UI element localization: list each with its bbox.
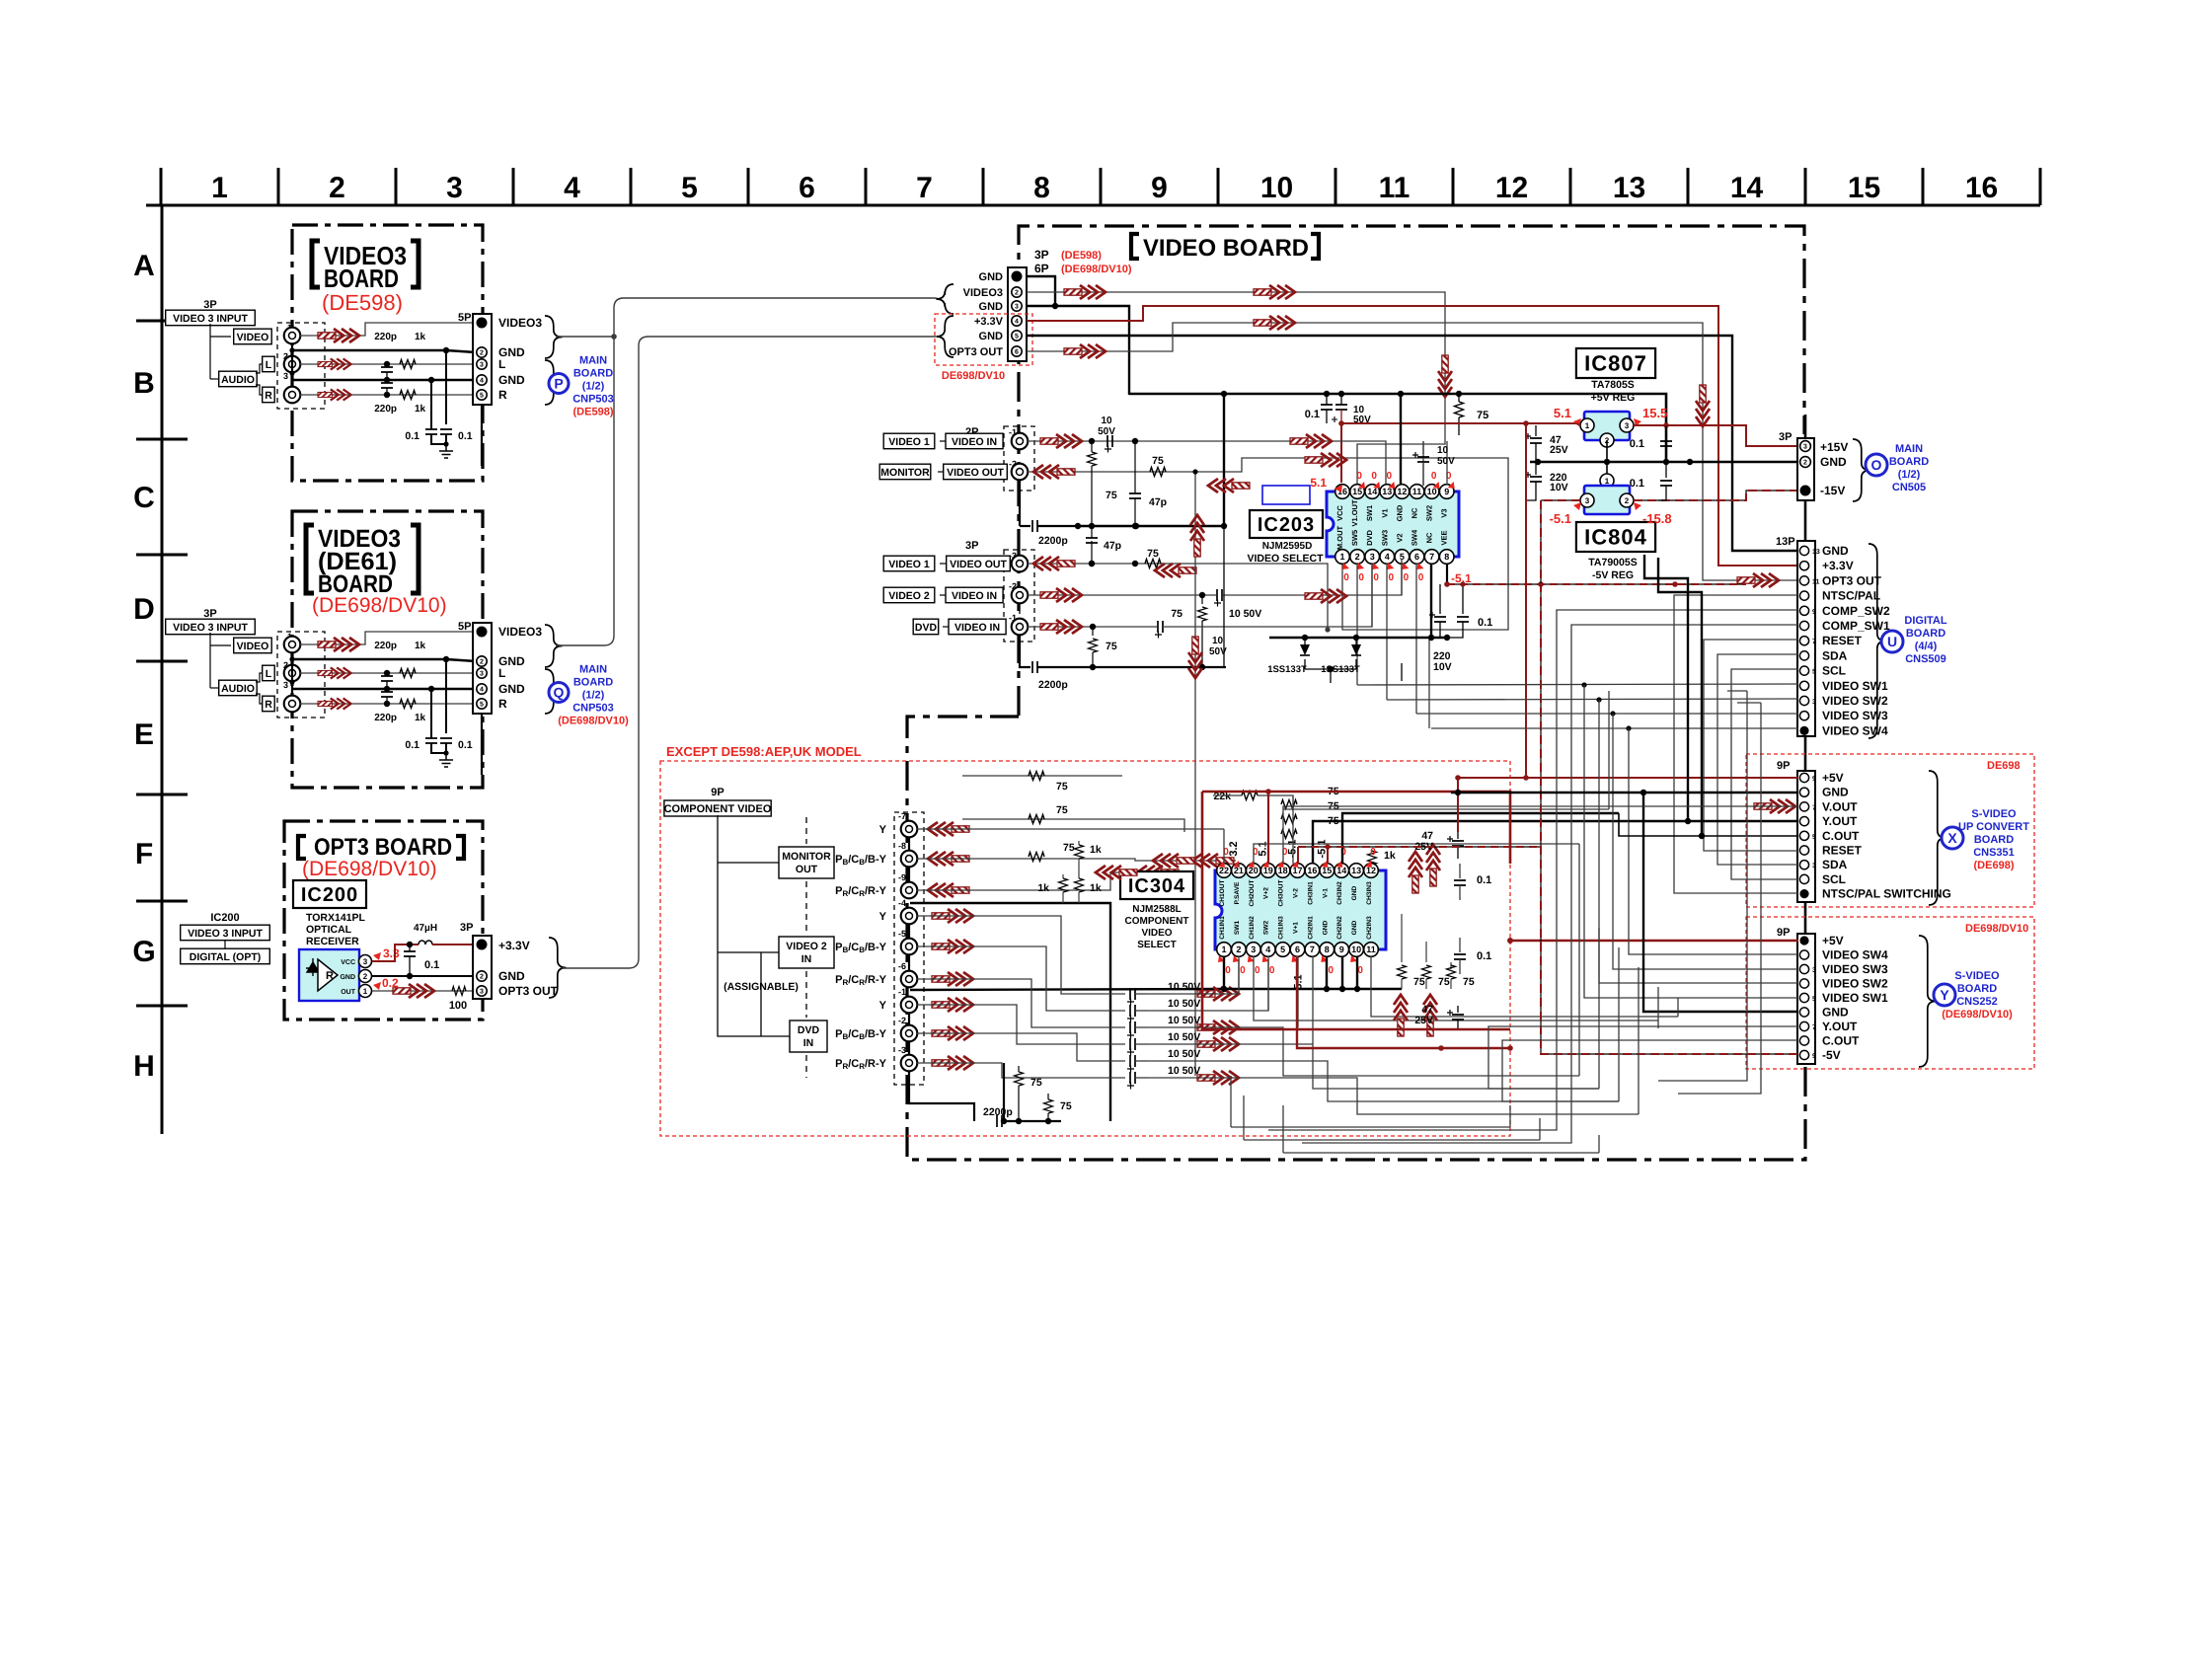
svg-text:-6: -6 bbox=[898, 961, 906, 971]
svg-text:1SS133T: 1SS133T bbox=[1267, 664, 1307, 675]
svg-text:3: 3 bbox=[1625, 421, 1630, 430]
wire GND opt3 bbox=[372, 975, 476, 977]
svg-text:(1/2): (1/2) bbox=[1898, 469, 1921, 481]
capacitor 220p R B2 bbox=[386, 689, 388, 692]
svg-text:CH3IN3: CH3IN3 bbox=[1366, 881, 1373, 905]
svg-text:GND: GND bbox=[979, 301, 1004, 313]
svg-text:VCC: VCC bbox=[1335, 505, 1344, 521]
svg-text:DVD: DVD bbox=[915, 622, 938, 634]
svg-text:8: 8 bbox=[1325, 945, 1330, 954]
svg-text:10 50V: 10 50V bbox=[1168, 998, 1200, 1010]
svg-text:VIDEO: VIDEO bbox=[1141, 928, 1172, 939]
svg-text:13P: 13P bbox=[1776, 536, 1795, 548]
svg-text:SELECT: SELECT bbox=[1137, 940, 1176, 950]
svg-text:+15V: +15V bbox=[1820, 440, 1848, 454]
IC304 bottom thick gnd bus bbox=[1224, 956, 1402, 989]
connector top 6P strip bbox=[1008, 267, 1027, 361]
svg-text:75: 75 bbox=[1063, 842, 1075, 854]
svg-text:9: 9 bbox=[1444, 487, 1449, 496]
svg-text:GND: GND bbox=[498, 373, 525, 387]
cap 0.1 IC804 right bbox=[1665, 462, 1667, 478]
svg-text:RECEIVER: RECEIVER bbox=[306, 936, 359, 947]
svg-text:-15.8: -15.8 bbox=[1642, 511, 1672, 526]
resistor 1k L B2 bbox=[400, 669, 416, 678]
svg-text:75: 75 bbox=[1056, 781, 1068, 793]
svg-text:IC304: IC304 bbox=[1128, 875, 1185, 897]
svg-text:VIDEO OUT: VIDEO OUT bbox=[950, 559, 1007, 570]
svg-text:TA7805S: TA7805S bbox=[1591, 379, 1635, 391]
IC304 top wires bbox=[1223, 829, 1225, 864]
svg-text:10: 10 bbox=[1101, 416, 1112, 426]
svg-text:COMP_SW1: COMP_SW1 bbox=[1822, 619, 1890, 633]
svg-text:3.3: 3.3 bbox=[383, 946, 400, 960]
svg-text:E: E bbox=[134, 718, 154, 751]
svg-text:25V: 25V bbox=[1550, 444, 1568, 456]
svg-text:IC203: IC203 bbox=[1258, 514, 1315, 536]
wires component tree bbox=[718, 815, 790, 1036]
svg-text:(4/4): (4/4) bbox=[1915, 641, 1938, 652]
svg-text:75: 75 bbox=[1056, 804, 1068, 816]
svg-text:1: 1 bbox=[1585, 421, 1590, 430]
svg-text:VIDEO: VIDEO bbox=[237, 332, 269, 343]
svg-text:SDA: SDA bbox=[1822, 858, 1848, 871]
svg-text:11: 11 bbox=[1812, 578, 1820, 585]
brace B1 bbox=[545, 316, 563, 358]
svg-text:6P: 6P bbox=[1034, 262, 1049, 275]
svg-text:COMPONENT VIDEO: COMPONENT VIDEO bbox=[664, 803, 772, 815]
svg-text:VIDEO3: VIDEO3 bbox=[498, 625, 542, 639]
red -5.1 dashed from pin8 bbox=[1447, 583, 1746, 585]
svg-text:TA79005S: TA79005S bbox=[1588, 557, 1637, 568]
ground B1 bbox=[445, 444, 447, 451]
svg-text:AUDIO: AUDIO bbox=[221, 683, 255, 695]
svg-text:GND: GND bbox=[1395, 504, 1404, 521]
svg-text:10 50V: 10 50V bbox=[1168, 1048, 1200, 1060]
svg-text:7: 7 bbox=[1429, 552, 1434, 562]
svg-text:COMP_SW2: COMP_SW2 bbox=[1822, 604, 1890, 618]
wire video1 in bbox=[1028, 441, 1386, 484]
svg-text:15.5: 15.5 bbox=[1642, 406, 1667, 420]
svg-text:BOARD: BOARD bbox=[1906, 628, 1945, 640]
svg-text:13: 13 bbox=[1613, 172, 1645, 204]
wire gnd B1 bbox=[292, 350, 476, 352]
RCA jacks B2 bbox=[277, 632, 325, 718]
svg-text:+3.3V: +3.3V bbox=[1822, 559, 1854, 572]
dashed link lines bbox=[805, 817, 807, 844]
svg-text:CH3IN2: CH3IN2 bbox=[1336, 881, 1343, 905]
svg-text:CH2OUT: CH2OUT bbox=[1249, 879, 1256, 906]
svg-text:VIDEO 2: VIDEO 2 bbox=[786, 941, 827, 952]
svg-text:0.1: 0.1 bbox=[1305, 409, 1320, 420]
capacitor 220p L B1 bbox=[384, 361, 390, 367]
svg-text:NC: NC bbox=[1425, 532, 1434, 543]
bus VIDEO SW2 bbox=[1387, 699, 1798, 700]
svg-text:SW1: SW1 bbox=[1365, 505, 1374, 521]
svg-text:-5: -5 bbox=[898, 929, 906, 939]
wire video3 long bbox=[1027, 292, 1445, 486]
svg-text:C.OUT: C.OUT bbox=[1822, 1034, 1860, 1048]
svg-text:V.OUT: V.OUT bbox=[1822, 799, 1858, 813]
svg-text:P.SAVE: P.SAVE bbox=[1234, 881, 1241, 904]
capacitor 0.1 opt3 bbox=[407, 942, 413, 947]
wire pin9 V3 bbox=[1446, 441, 1448, 485]
IC304 thick top verticals bbox=[1313, 821, 1629, 864]
svg-text:(1/2): (1/2) bbox=[582, 381, 605, 393]
svg-text:3: 3 bbox=[1370, 552, 1375, 562]
svg-text:CH3OUT: CH3OUT bbox=[1278, 879, 1285, 906]
svg-text:B: B bbox=[133, 367, 155, 400]
svg-text:3: 3 bbox=[446, 172, 463, 204]
capacitor 47p below video1 bbox=[1134, 441, 1136, 493]
svg-text:Y.OUT: Y.OUT bbox=[1822, 814, 1858, 828]
svg-text:47p: 47p bbox=[1104, 540, 1121, 552]
svg-text:75: 75 bbox=[1463, 976, 1475, 988]
svg-text:2: 2 bbox=[1355, 552, 1360, 562]
capacitor 2200p bbox=[1020, 525, 1030, 527]
IC304 pins top bbox=[1217, 864, 1232, 878]
svg-text:3: 3 bbox=[1015, 304, 1019, 311]
svg-text:CH1IN1: CH1IN1 bbox=[1219, 916, 1226, 940]
wire monitor out bbox=[1028, 458, 1508, 630]
wire OPT3 OUT long bbox=[1027, 323, 1798, 580]
component jacks dashed box bbox=[894, 812, 924, 1085]
svg-text:X: X bbox=[1947, 830, 1957, 846]
svg-text:5.1: 5.1 bbox=[1310, 476, 1327, 490]
svg-text:+3.3V: +3.3V bbox=[498, 939, 530, 952]
OPT3 BOARD box bbox=[284, 821, 483, 1020]
svg-text:CNP503: CNP503 bbox=[572, 703, 614, 715]
svg-text:GND: GND bbox=[1822, 1006, 1849, 1020]
svg-text:3: 3 bbox=[1812, 699, 1816, 706]
svg-text:DIGITAL: DIGITAL bbox=[1904, 615, 1946, 627]
resistor 75 rail bbox=[1458, 394, 1460, 402]
caps 47 25V right bbox=[1457, 832, 1459, 839]
svg-text:1k: 1k bbox=[415, 404, 426, 415]
svg-text:R: R bbox=[265, 699, 272, 711]
svg-text:50V: 50V bbox=[1098, 426, 1115, 437]
IC304 pins bottom bbox=[1217, 943, 1232, 957]
svg-text:7: 7 bbox=[1812, 1024, 1816, 1031]
svg-text:75: 75 bbox=[1438, 976, 1450, 988]
svg-text:NTSC/PAL: NTSC/PAL bbox=[1822, 589, 1880, 603]
svg-text:OPT3 OUT: OPT3 OUT bbox=[1822, 573, 1882, 587]
svg-text:IC200: IC200 bbox=[210, 912, 239, 924]
DVD IN box bbox=[790, 1020, 827, 1052]
svg-text:CH2IN1: CH2IN1 bbox=[1307, 916, 1314, 940]
svg-text:3: 3 bbox=[1251, 945, 1256, 954]
IC304 label bbox=[1120, 871, 1193, 899]
resistor 75 on v1out line bbox=[1145, 560, 1161, 568]
resistor cluster 75s bbox=[1401, 914, 1403, 962]
red feed V+2 pin19 bbox=[1267, 792, 1269, 864]
svg-text:9P: 9P bbox=[1777, 760, 1790, 772]
svg-text:75: 75 bbox=[1171, 608, 1182, 620]
svg-text:3: 3 bbox=[283, 680, 288, 690]
svg-text:4: 4 bbox=[1015, 319, 1019, 326]
red dashed box DE698 bbox=[1746, 754, 2034, 907]
svg-text:0: 0 bbox=[1370, 847, 1376, 858]
svg-text:(1/2): (1/2) bbox=[582, 690, 605, 702]
resistor 1k R B2 bbox=[400, 700, 416, 709]
wire video B1 bbox=[300, 323, 476, 336]
brace gather 3p6p A bbox=[936, 284, 953, 314]
bus VIDEO SW1 bbox=[1357, 684, 1798, 685]
red voltage 0.2 bbox=[373, 982, 381, 990]
svg-text:0.1: 0.1 bbox=[405, 739, 420, 751]
svg-text:10: 10 bbox=[1351, 945, 1361, 954]
gnd bus 2p bbox=[1019, 481, 1021, 526]
wire -5.1 left dashed bbox=[1541, 499, 1580, 501]
svg-text:5P: 5P bbox=[458, 621, 471, 633]
svg-text:GND: GND bbox=[498, 682, 525, 696]
wire -15.8 dashed bbox=[1634, 491, 1798, 500]
svg-text:MONITOR: MONITOR bbox=[880, 467, 930, 479]
svg-text:1k: 1k bbox=[1384, 850, 1396, 862]
svg-text:3: 3 bbox=[1812, 967, 1816, 974]
svg-text:11: 11 bbox=[1412, 487, 1422, 496]
svg-text:-8: -8 bbox=[898, 841, 906, 851]
wires caps to IC304 pins bbox=[1148, 959, 1239, 994]
svg-text:3: 3 bbox=[363, 957, 368, 966]
svg-text:9P: 9P bbox=[711, 787, 724, 798]
capacitor 0.1 B2 bbox=[428, 686, 434, 692]
svg-text:GND: GND bbox=[1351, 920, 1358, 935]
bus VIDEO SW4 bbox=[1431, 727, 1798, 729]
wire 5.1 to IC203 pin16 bbox=[1340, 423, 1342, 483]
svg-text:Q: Q bbox=[554, 685, 565, 701]
svg-text:RESET: RESET bbox=[1822, 634, 1863, 647]
svg-text:8: 8 bbox=[1444, 552, 1449, 562]
bus COMP_SW1 bbox=[1302, 625, 1798, 1143]
svg-text:Y: Y bbox=[879, 1000, 887, 1012]
svg-text:50V: 50V bbox=[1437, 456, 1455, 467]
svg-text:L: L bbox=[266, 359, 272, 371]
svg-text:(DE598): (DE598) bbox=[322, 290, 403, 315]
VIDEO BOARD outline bbox=[907, 226, 1805, 1160]
Y YOUT wire bbox=[1488, 1026, 1798, 1089]
svg-text:75: 75 bbox=[1477, 410, 1488, 421]
svg-text:6: 6 bbox=[1015, 349, 1019, 356]
svg-text:220p: 220p bbox=[374, 641, 397, 651]
svg-text:0.1: 0.1 bbox=[424, 959, 439, 971]
mesh extra h3 bbox=[1230, 1076, 1232, 1127]
svg-text:9: 9 bbox=[1151, 172, 1168, 204]
bus 13P NTSC/PAL bbox=[1674, 595, 1798, 893]
arrow V.OUT bbox=[1754, 799, 1795, 813]
brace O bbox=[1853, 439, 1870, 501]
svg-text:+5V REG: +5V REG bbox=[1591, 392, 1636, 404]
arrows after caps bbox=[1197, 987, 1239, 1001]
cap 0.1 IC807 right bbox=[1665, 425, 1667, 438]
svg-text:NJM2595D: NJM2595D bbox=[1262, 541, 1313, 552]
svg-text:(DE598): (DE598) bbox=[1061, 250, 1102, 262]
Y COUT wire bbox=[1502, 1040, 1798, 1101]
svg-text:SW5: SW5 bbox=[1350, 530, 1359, 546]
svg-text:9: 9 bbox=[1812, 776, 1816, 783]
capacitor 0.1 b B1 bbox=[445, 350, 447, 424]
VIDEO BOARD title bbox=[1131, 234, 1139, 259]
svg-text:DE698: DE698 bbox=[1987, 760, 2021, 772]
svg-text:75: 75 bbox=[1060, 1100, 1072, 1112]
wire 13P to X strip bbox=[1804, 736, 1807, 771]
mesh extra h5 bbox=[1283, 1152, 1599, 1154]
svg-text:0: 0 bbox=[1255, 965, 1260, 976]
svg-text:OPT3 BOARD: OPT3 BOARD bbox=[314, 834, 452, 861]
svg-text:4: 4 bbox=[1385, 552, 1390, 562]
capacitor 220p L B2 bbox=[384, 670, 390, 676]
svg-text:15: 15 bbox=[1848, 172, 1880, 204]
svg-text:4: 4 bbox=[480, 687, 484, 694]
svg-text:6: 6 bbox=[799, 172, 815, 204]
svg-text:L: L bbox=[266, 668, 272, 680]
svg-text:13: 13 bbox=[1382, 487, 1392, 496]
svg-text:10 50V: 10 50V bbox=[1229, 608, 1261, 620]
red dashed box DE698/DV10 Y bbox=[1746, 917, 2034, 1069]
svg-text:R: R bbox=[265, 390, 272, 402]
svg-text:V3: V3 bbox=[1440, 508, 1449, 517]
svg-text:5: 5 bbox=[1015, 334, 1019, 340]
arrow down video3 vert bbox=[1438, 355, 1452, 397]
svg-text:0.1: 0.1 bbox=[1630, 478, 1644, 490]
svg-text:9: 9 bbox=[1812, 1053, 1816, 1060]
photodiode bbox=[306, 962, 320, 972]
svg-text:OUT: OUT bbox=[796, 864, 818, 875]
svg-text:SW1: SW1 bbox=[1234, 921, 1241, 936]
Y GND wire bbox=[1643, 793, 1798, 1012]
red dashed V-2 V-1 bbox=[1297, 847, 1299, 864]
main gnd rail bbox=[1129, 394, 1666, 462]
wire gnd bus to rail bbox=[1027, 306, 1129, 395]
svg-text:13: 13 bbox=[1351, 866, 1361, 875]
svg-text:IC807: IC807 bbox=[1584, 351, 1647, 376]
svg-text:A: A bbox=[133, 250, 155, 282]
svg-text:0.1: 0.1 bbox=[458, 739, 473, 751]
wire mid vertical bbox=[1194, 472, 1196, 1076]
svg-text:VIDEO 3 INPUT: VIDEO 3 INPUT bbox=[173, 622, 248, 634]
svg-text:100: 100 bbox=[449, 1000, 467, 1012]
svg-text:VIDEO SW4: VIDEO SW4 bbox=[1822, 723, 1888, 737]
brace B2 bbox=[545, 625, 563, 667]
svg-text:-5.1: -5.1 bbox=[1550, 511, 1571, 526]
capacitor 10 50V rail bbox=[1340, 394, 1342, 405]
svg-text:CH1IN2: CH1IN2 bbox=[1249, 916, 1256, 940]
capacitor 47p below v1out bbox=[1089, 561, 1095, 567]
svg-text:NTSC/PAL SWITCHING: NTSC/PAL SWITCHING bbox=[1822, 887, 1951, 901]
svg-text:-5V: -5V bbox=[1822, 1048, 1841, 1062]
svg-text:SW2: SW2 bbox=[1263, 921, 1270, 936]
wires video2 group to caps bbox=[917, 916, 1125, 994]
svg-text:VIDEO 1: VIDEO 1 bbox=[888, 436, 930, 448]
svg-text:3: 3 bbox=[480, 362, 484, 369]
svg-text:(DE698/DV10): (DE698/DV10) bbox=[302, 858, 437, 880]
brace OPT3 bbox=[549, 938, 567, 998]
svg-text:GND: GND bbox=[1322, 920, 1329, 935]
svg-text:-4: -4 bbox=[898, 898, 906, 908]
wire dvd in bbox=[1028, 626, 1157, 628]
svg-text:3P: 3P bbox=[203, 299, 216, 311]
svg-text:V-1: V-1 bbox=[1322, 888, 1329, 898]
svg-text:V2: V2 bbox=[1395, 533, 1404, 542]
svg-text:MAIN: MAIN bbox=[579, 355, 607, 367]
svg-text:CH1OUT: CH1OUT bbox=[1219, 879, 1226, 906]
svg-text:3: 3 bbox=[1803, 444, 1807, 451]
svg-text:3: 3 bbox=[1585, 496, 1590, 505]
component jack ground chain bbox=[908, 837, 910, 882]
mesh right verticals bbox=[1658, 691, 1747, 1081]
svg-text:0: 0 bbox=[1404, 572, 1410, 583]
svg-text:15: 15 bbox=[1352, 487, 1362, 496]
gnd wire O connector bbox=[1530, 461, 1798, 464]
wire gnd2 B2 bbox=[292, 688, 476, 690]
svg-text:75: 75 bbox=[1106, 490, 1117, 501]
svg-text:GND: GND bbox=[1351, 885, 1358, 900]
brace gather 3p6p B bbox=[936, 316, 953, 357]
svg-text:0.1: 0.1 bbox=[1477, 950, 1491, 962]
svg-text:0: 0 bbox=[1387, 471, 1393, 482]
svg-text:0.1: 0.1 bbox=[1478, 617, 1492, 629]
svg-text:0: 0 bbox=[1371, 471, 1377, 482]
svg-text:3P: 3P bbox=[203, 608, 216, 620]
svg-text:10V: 10V bbox=[1550, 482, 1568, 493]
arrow up mid bbox=[1190, 515, 1204, 557]
svg-text:75: 75 bbox=[1106, 641, 1117, 652]
capacitor 0.1 B1 bbox=[428, 377, 434, 383]
svg-text:VIDEO IN: VIDEO IN bbox=[954, 622, 1000, 634]
svg-text:75: 75 bbox=[1030, 1077, 1042, 1089]
svg-text:NJM2588L: NJM2588L bbox=[1132, 904, 1181, 915]
svg-text:VCC: VCC bbox=[341, 959, 355, 966]
up arrows right of IC304 bbox=[1394, 995, 1408, 1036]
bus SCL bbox=[1731, 669, 1798, 879]
wire video2 in bbox=[1028, 594, 1216, 596]
svg-text:12: 12 bbox=[1397, 487, 1407, 496]
diodes 1SS133T bbox=[1304, 638, 1306, 644]
wire O connector vertical bbox=[1804, 415, 1807, 438]
red dashed box DE698/DV10 top bbox=[935, 314, 1032, 365]
svg-text:1k: 1k bbox=[1090, 882, 1102, 894]
svg-text:MAIN: MAIN bbox=[1895, 443, 1923, 455]
svg-text:7: 7 bbox=[1812, 639, 1816, 645]
svg-text:COMPONENT: COMPONENT bbox=[1125, 916, 1189, 927]
wire video1 out bbox=[1028, 564, 1328, 630]
red feed V+1 pin6 bbox=[1297, 956, 1510, 1048]
IC804 label bbox=[1576, 522, 1655, 552]
svg-text:BOARD: BOARD bbox=[324, 264, 399, 293]
svg-text:75: 75 bbox=[1147, 548, 1159, 560]
svg-text:2: 2 bbox=[329, 172, 345, 204]
wire video B2 bbox=[300, 632, 476, 644]
svg-text:VIDEO SELECT: VIDEO SELECT bbox=[1247, 553, 1324, 565]
mesh extra h4 bbox=[1243, 1096, 1245, 1140]
svg-text:BOARD: BOARD bbox=[573, 368, 613, 380]
svg-text:4: 4 bbox=[1265, 945, 1270, 954]
wire R B1 bbox=[300, 394, 476, 396]
svg-text:VIDEO IN: VIDEO IN bbox=[952, 590, 997, 602]
svg-text:OUT: OUT bbox=[341, 989, 356, 996]
wire OUT opt3 bbox=[372, 990, 476, 992]
svg-text:M.OUT: M.OUT bbox=[1335, 526, 1344, 551]
svg-text:7: 7 bbox=[916, 172, 933, 204]
svg-text:(DE698/DV10): (DE698/DV10) bbox=[1061, 264, 1132, 275]
svg-text:5: 5 bbox=[1812, 669, 1816, 676]
svg-text:P: P bbox=[554, 376, 563, 392]
VIDEO 2 IN box bbox=[779, 937, 834, 968]
svg-text:10 50V: 10 50V bbox=[1168, 1015, 1200, 1026]
res 75 bottom pair bbox=[1018, 1066, 1020, 1072]
svg-text:14: 14 bbox=[1367, 487, 1377, 496]
red wire +5V to Y bbox=[1510, 940, 1798, 943]
bus SDA bbox=[1717, 654, 1798, 865]
